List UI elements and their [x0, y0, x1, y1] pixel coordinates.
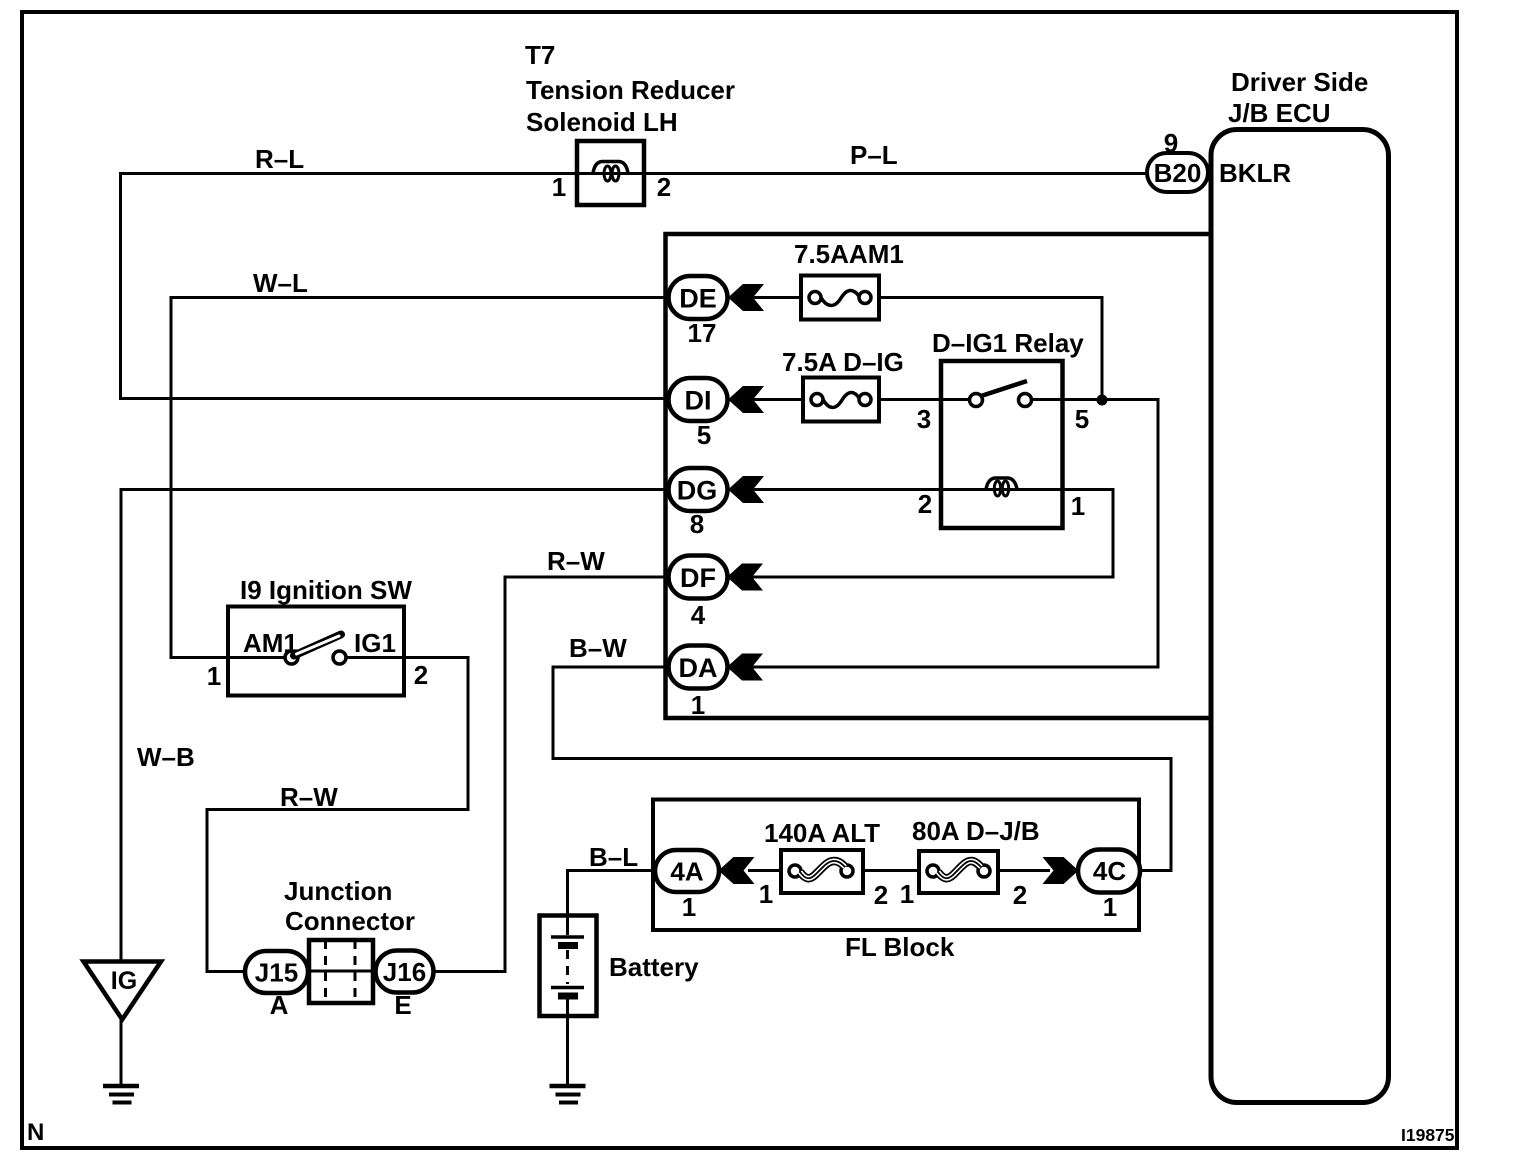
svg-text:5: 5 — [1075, 404, 1089, 434]
svg-text:1: 1 — [207, 661, 221, 691]
svg-text:7.5A D–IG: 7.5A D–IG — [782, 347, 904, 377]
fusible link 80A D-J/B — [900, 816, 1040, 910]
svg-text:DE: DE — [679, 284, 717, 314]
svg-text:140A ALT: 140A ALT — [764, 818, 880, 848]
FL block — [653, 800, 1139, 963]
svg-text:1: 1 — [552, 172, 566, 202]
svg-text:J16: J16 — [383, 957, 426, 987]
svg-text:Solenoid LH: Solenoid LH — [526, 107, 678, 137]
label T7 Tension Reducer Solenoid LH — [525, 40, 735, 137]
relay contact — [970, 394, 983, 407]
svg-text:1: 1 — [1071, 491, 1085, 521]
solenoid T7 — [552, 141, 671, 205]
ground symbol (IG) — [103, 1086, 139, 1103]
svg-text:B–W: B–W — [569, 633, 627, 663]
svg-text:4C: 4C — [1093, 856, 1126, 886]
arrow into DA — [727, 654, 763, 681]
inner ECU connector box — [666, 234, 1212, 718]
svg-text:R–L: R–L — [255, 144, 304, 174]
connector DF pin 4 — [669, 556, 728, 631]
connector J15 pin A — [245, 951, 308, 1020]
svg-text:I19875: I19875 — [1401, 1125, 1455, 1145]
connector B20 pin 9 — [1147, 128, 1208, 192]
junction connector block — [309, 940, 373, 1003]
connector DI pin 5 — [669, 378, 728, 450]
wire fuse 80A to 4C arrow — [998, 869, 1050, 872]
arrow into DE — [728, 284, 764, 311]
svg-text:P–L: P–L — [850, 140, 898, 170]
svg-text:1: 1 — [759, 879, 773, 909]
svg-text:D–IG1 Relay: D–IG1 Relay — [932, 328, 1084, 358]
relay D-IG1 — [917, 328, 1089, 528]
svg-text:E: E — [394, 990, 411, 1020]
svg-text:W–L: W–L — [253, 268, 308, 298]
wire B-W (DA to FL block 4C) — [553, 633, 1171, 871]
wire between fuses — [863, 869, 919, 872]
svg-text:T7: T7 — [525, 40, 555, 70]
svg-text:5: 5 — [697, 420, 711, 450]
svg-text:N: N — [27, 1119, 44, 1146]
svg-text:R–W: R–W — [280, 782, 338, 812]
fuse 7.5A D-IG — [782, 347, 904, 422]
svg-text:R–W: R–W — [547, 546, 605, 576]
svg-text:1: 1 — [900, 879, 914, 909]
wire fuse AM1 right to vertical — [879, 298, 1102, 401]
svg-text:Battery: Battery — [609, 952, 699, 982]
svg-text:2: 2 — [874, 880, 888, 910]
svg-text:I9 Ignition SW: I9 Ignition SW — [240, 575, 412, 605]
IG ground triangle — [84, 962, 162, 1087]
svg-text:4: 4 — [691, 600, 706, 630]
relay coil — [986, 478, 1017, 490]
svg-text:DG: DG — [677, 476, 718, 506]
svg-text:Driver Side: Driver Side — [1231, 67, 1368, 97]
wire W-L (DE to ignition switch AM1) — [171, 268, 669, 658]
svg-text:B20: B20 — [1154, 158, 1202, 188]
junction connector — [284, 876, 415, 936]
svg-text:BKLR: BKLR — [1219, 158, 1291, 188]
svg-text:DI: DI — [685, 386, 712, 416]
wire fuse D-IG right to relay pin 3 — [879, 398, 970, 401]
wire R-L (solenoid pin1 to DI) — [121, 144, 669, 399]
svg-text:1: 1 — [691, 690, 705, 720]
svg-text:1: 1 — [682, 892, 696, 922]
svg-text:DA: DA — [679, 653, 718, 683]
connector DE pin 17 — [669, 276, 728, 348]
svg-text:Junction: Junction — [284, 876, 392, 906]
Driver Side J/B ECU box — [1211, 67, 1389, 1103]
wire relay pin5 to node and down to DA — [748, 400, 1158, 668]
ground symbol (battery) — [550, 1086, 586, 1103]
svg-text:80A D–J/B: 80A D–J/B — [912, 816, 1040, 846]
svg-text:IG: IG — [111, 967, 137, 995]
svg-text:8: 8 — [690, 509, 704, 539]
connector DA pin 1 — [669, 646, 728, 721]
wire W-B (DG to IG ground) — [121, 490, 668, 962]
wire R-W (DF to junction connector J16) — [433, 546, 668, 972]
svg-text:W–B: W–B — [137, 742, 195, 772]
node at relay pin5 — [1097, 395, 1108, 406]
fusible link 140A ALT — [759, 818, 888, 910]
wire DE to fuse AM1 and down to relay pin5 node — [748, 296, 801, 299]
svg-text:B–L: B–L — [589, 842, 638, 872]
svg-text:2: 2 — [1013, 880, 1027, 910]
svg-text:FL Block: FL Block — [845, 932, 955, 962]
battery — [540, 916, 700, 1087]
svg-text:J/B ECU: J/B ECU — [1228, 98, 1331, 128]
svg-text:A: A — [270, 990, 289, 1020]
connector J16 pin E — [376, 951, 434, 1021]
svg-text:2: 2 — [918, 489, 932, 519]
arrow into 4C (pointing right) — [1043, 857, 1079, 884]
arrow into DI — [728, 386, 764, 413]
connector 4C pin 1 — [1078, 850, 1140, 923]
svg-text:DF: DF — [680, 563, 716, 593]
svg-text:17: 17 — [688, 318, 717, 348]
svg-text:2: 2 — [414, 660, 428, 690]
arrow into DG — [728, 476, 764, 503]
wire P-L (solenoid pin2 to B20) — [644, 140, 1148, 174]
wire B-L (battery to 4A) — [568, 842, 655, 916]
connector DG pin 8 — [669, 468, 728, 539]
connector 4A pin 1 — [655, 850, 719, 922]
wire DI to fuse D-IG — [748, 398, 803, 401]
svg-text:3: 3 — [917, 404, 931, 434]
svg-text:IG1: IG1 — [354, 628, 396, 658]
ignition switch I9 — [207, 575, 428, 696]
svg-text:1: 1 — [1103, 892, 1117, 922]
svg-text:J15: J15 — [255, 958, 298, 988]
svg-text:7.5AAM1: 7.5AAM1 — [794, 239, 904, 269]
wire R-W (ignition IG1 to junction connector J15) — [207, 658, 468, 972]
wire DG through relay coil, pin1 right and down to DF — [748, 490, 1113, 578]
fuse 7.5A AM1 — [794, 239, 904, 320]
wire 4A to fuse 140A — [748, 869, 781, 872]
svg-text:Tension Reducer: Tension Reducer — [526, 75, 735, 105]
svg-text:Connector: Connector — [285, 906, 415, 936]
arrow into 4A — [719, 857, 755, 884]
svg-text:9: 9 — [1164, 128, 1178, 158]
svg-text:4A: 4A — [670, 857, 703, 887]
svg-text:2: 2 — [657, 172, 671, 202]
arrow into DF — [727, 564, 763, 591]
